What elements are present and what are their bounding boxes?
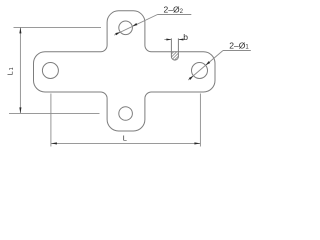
svg-text:b: b: [183, 32, 188, 42]
dimension L: dimension line: [51, 142, 201, 144]
leader 2-Ø1: slanted line through right hole: [188, 51, 223, 81]
hole right Ø1: [192, 63, 208, 79]
leader 2-Ø2 arrowheads: [132, 23, 137, 26]
b dimension line right segment + arrow: [178, 39, 184, 41]
L arrow right: [194, 142, 200, 144]
dimension L: extension line right: [199, 94, 201, 147]
dimension L1: extension line bottom: [9, 112, 100, 114]
leader 2-Ø1: underline: [223, 50, 251, 52]
hole bottom Ø2: [119, 107, 133, 121]
leader 2-Ø2: underline: [158, 14, 192, 16]
hatching: [162, 38, 197, 64]
section bar (revolved section, width b): [162, 38, 197, 64]
leader 2-Ø1 arrowheads: [206, 61, 211, 65]
hole left Ø1: [42, 63, 58, 79]
dimension L1: extension line top: [14, 26, 102, 28]
svg-text:L: L: [123, 133, 127, 142]
dimension L: extension line left: [50, 94, 52, 147]
b dimension line left segment + arrow: [164, 39, 171, 41]
L1 arrow up: [19, 27, 21, 33]
L1 arrow down: [19, 107, 21, 113]
hole top Ø2: [119, 21, 133, 35]
L arrow left: [51, 142, 57, 144]
leader 2-Ø2: slanted line through top hole: [114, 15, 157, 36]
cross-shaped plate outline: [34, 11, 216, 131]
dimension L1: dimension line: [19, 27, 21, 113]
